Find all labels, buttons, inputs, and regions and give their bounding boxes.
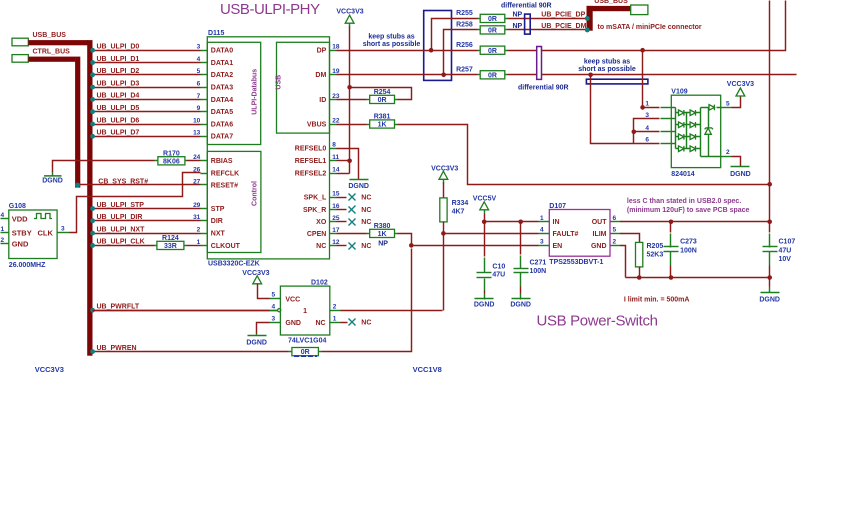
wire UB_ULPI_D0 — [90, 48, 200, 53]
svg-text:NP: NP — [378, 241, 388, 248]
svg-text:UB_PCIE_DM: UB_PCIE_DM — [541, 23, 586, 30]
no-connect X (D102 pin1) — [341, 319, 372, 327]
net label CB_SYS_RST# — [98, 178, 148, 185]
svg-text:24: 24 — [193, 154, 201, 161]
wire GND down — [621, 246, 626, 278]
net label UB_ULPI_D3 — [97, 80, 140, 87]
svg-text:R205: R205 — [647, 243, 664, 250]
resistor R334 — [440, 183, 469, 222]
junction DM to V109 — [588, 73, 659, 144]
power VCC3V3 (R334) — [431, 165, 458, 183]
svg-text:CLK: CLK — [37, 228, 53, 237]
wire D102 GND — [257, 323, 270, 334]
svg-text:0R: 0R — [488, 72, 497, 79]
svg-text:TPS2553DBVT-1: TPS2553DBVT-1 — [549, 259, 603, 266]
svg-text:UB_ULPI_DIR: UB_ULPI_DIR — [97, 214, 143, 221]
svg-text:CB_SYS_RST#: CB_SYS_RST# — [98, 178, 148, 185]
V109 pin 6 — [645, 137, 671, 144]
svg-text:ID: ID — [319, 97, 326, 104]
svg-text:4: 4 — [197, 56, 201, 63]
net label UB_ULPI_STP — [97, 202, 145, 209]
svg-text:R257: R257 — [456, 67, 473, 74]
no-connect X — [337, 206, 372, 214]
svg-text:2: 2 — [197, 227, 201, 234]
D115 pin 14 REFSEL2 — [295, 167, 340, 178]
wire UB_ULPI_D1 — [90, 60, 200, 65]
junction EN node — [409, 243, 414, 248]
svg-text:short as possible: short as possible — [363, 41, 421, 48]
svg-text:0R: 0R — [488, 28, 497, 35]
wire VCC5V to IN — [482, 214, 539, 225]
svg-text:DATA2: DATA2 — [211, 72, 233, 79]
svg-text:UB_PWREN: UB_PWREN — [97, 345, 137, 352]
resistor R205 — [636, 242, 664, 267]
svg-text:26.000MHZ: 26.000MHZ — [9, 262, 46, 269]
wire R381 to VBUS rail — [398, 125, 770, 185]
svg-text:CTRL_BUS: CTRL_BUS — [33, 49, 71, 56]
svg-text:RBIAS: RBIAS — [211, 158, 233, 165]
svg-text:STBY: STBY — [12, 228, 32, 237]
svg-text:100N: 100N — [530, 268, 547, 275]
svg-text:9: 9 — [197, 105, 201, 112]
wire bottom rail — [626, 275, 773, 280]
svg-text:DGND: DGND — [759, 297, 780, 304]
svg-text:1: 1 — [303, 308, 307, 315]
D115 pin 23 ID — [319, 93, 340, 104]
diode array V109 824014 box — [671, 89, 720, 178]
svg-text:VCC3V3: VCC3V3 — [336, 8, 363, 15]
svg-text:UB_ULPI_D5: UB_ULPI_D5 — [97, 105, 140, 112]
wire R334 to FAULT node — [441, 222, 446, 236]
junction DP to V109 — [640, 48, 645, 110]
svg-text:7: 7 — [197, 93, 201, 100]
net label UB_ULPI_D5 — [97, 105, 140, 112]
D115 pin 16 SPK_R — [303, 203, 340, 214]
D115 pin 12 NC — [316, 239, 340, 250]
D115 pin 25 XO — [316, 215, 340, 226]
svg-text:74LVC1G04: 74LVC1G04 — [288, 338, 326, 345]
svg-text:UB_ULPI_D1: UB_ULPI_D1 — [97, 56, 140, 63]
svg-text:EN: EN — [553, 243, 563, 250]
wire VCC5V down to C10 — [484, 222, 486, 257]
svg-text:3: 3 — [197, 44, 201, 51]
wire R205 to rail — [639, 267, 641, 278]
wire UB_ULPI_D2 — [90, 72, 200, 77]
IC D102 74LVC1G04 — [270, 279, 341, 344]
junction on VCC3V3 at REFSEL1 — [347, 159, 352, 164]
svg-text:3: 3 — [272, 315, 276, 322]
wire VBUS net vertical (right) — [767, 1, 772, 222]
resistor R380 (NP) — [367, 223, 398, 248]
svg-text:NP: NP — [513, 11, 523, 18]
wire UB_ULPI_D6 — [90, 122, 200, 127]
wire VCC3V3 vertical — [349, 27, 351, 174]
net label UB_ULPI_D4 — [97, 93, 140, 100]
svg-text:SPK_L: SPK_L — [304, 195, 327, 202]
svg-text:USB: USB — [276, 75, 283, 90]
svg-text:47U: 47U — [779, 248, 792, 255]
svg-text:R124: R124 — [162, 235, 179, 242]
svg-text:differential 90R: differential 90R — [518, 85, 569, 92]
svg-text:DATA1: DATA1 — [211, 60, 233, 67]
svg-text:2: 2 — [613, 239, 617, 246]
wire R258 out — [508, 28, 590, 33]
label differential 90R (bottom) — [518, 85, 569, 92]
svg-text:26: 26 — [193, 167, 201, 174]
svg-text:4: 4 — [645, 125, 649, 132]
capacitor C271 — [514, 256, 547, 287]
svg-text:DGND: DGND — [42, 178, 63, 185]
svg-text:D107: D107 — [549, 203, 566, 210]
wire DM line — [337, 74, 797, 76]
svg-text:27: 27 — [193, 178, 201, 185]
svg-text:GND: GND — [591, 243, 607, 250]
wire ID to R254 — [337, 99, 367, 101]
ground DGND (C271) — [510, 287, 531, 309]
wire UB_ULPI_DIR — [90, 218, 200, 223]
D115 pin 26 REFCLK — [193, 167, 239, 178]
D115 pin 4 DATA1 — [197, 56, 234, 67]
D115 ULPI-Databus sub-box — [207, 42, 260, 144]
diff-pair marker (blue, DP/DM) — [525, 14, 531, 34]
svg-text:C10: C10 — [492, 263, 505, 270]
wire V109 pins 3-4 branch — [632, 119, 660, 144]
svg-text:DGND: DGND — [474, 302, 495, 309]
net label UB_ULPI_D6 — [97, 117, 140, 124]
svg-text:USB_BUS: USB_BUS — [594, 0, 628, 5]
ground DGND (V109) — [730, 157, 751, 178]
net label UB_ULPI_NXT — [97, 226, 146, 233]
ground DGND (left of buses) — [42, 173, 63, 185]
resistor R254 — [367, 89, 398, 104]
resistor R124 — [155, 235, 187, 250]
resistor R255 — [456, 10, 507, 23]
label differential 90R (top) — [501, 3, 552, 10]
D115 pin 19 DM — [315, 68, 340, 79]
junction on VCC3V3 at R254 loop — [347, 85, 352, 90]
svg-text:REFCLK: REFCLK — [211, 171, 239, 178]
wire CB_SYS_RST# — [75, 183, 200, 188]
D115 pin 1 CLKOUT — [197, 239, 241, 250]
wire CLK to REFCLK — [70, 173, 201, 233]
svg-text:G108: G108 — [9, 203, 26, 210]
label NP R255 — [513, 11, 523, 18]
net label UB_ULPI_D1 — [97, 56, 140, 63]
net label UB_ULPI_D2 — [97, 68, 140, 75]
net label USB_BUS (top right, clipped) — [594, 0, 628, 5]
svg-text:DATA6: DATA6 — [211, 121, 233, 128]
svg-text:10V: 10V — [779, 256, 792, 263]
D115 pin 2 NXT — [197, 227, 226, 238]
frame blue box around series resistors — [424, 11, 452, 81]
svg-text:D115: D115 — [208, 30, 224, 37]
svg-text:1K: 1K — [378, 122, 387, 129]
D115 pin 9 DATA5 — [197, 105, 234, 116]
svg-text:1: 1 — [645, 100, 649, 107]
junction DP/R255 — [429, 19, 478, 53]
svg-text:0R: 0R — [301, 349, 310, 356]
D115 pin 8 REFSEL0 — [295, 142, 337, 153]
V109 pin 2 — [721, 149, 732, 156]
svg-text:4: 4 — [1, 212, 5, 219]
V109 internal diodes — [672, 105, 722, 157]
D115 pin 11 REFSEL1 — [295, 154, 340, 165]
svg-text:5: 5 — [197, 68, 201, 75]
svg-text:3: 3 — [540, 239, 544, 246]
V109 pin 1 — [645, 100, 671, 107]
svg-text:UB_ULPI_D7: UB_ULPI_D7 — [97, 130, 140, 137]
svg-text:ILIM: ILIM — [593, 231, 607, 238]
svg-text:DATA7: DATA7 — [211, 134, 233, 141]
svg-text:UB_ULPI_NXT: UB_ULPI_NXT — [97, 226, 146, 233]
svg-text:differential 90R: differential 90R — [501, 3, 552, 10]
svg-text:REFSEL0: REFSEL0 — [295, 146, 327, 153]
wire ILIM to R205 — [621, 234, 640, 243]
net label VCC1V8 (bottom) — [413, 365, 442, 374]
svg-text:13: 13 — [193, 130, 201, 137]
svg-text:keep stubs as: keep stubs as — [368, 34, 414, 41]
resistor R382 (0R) — [289, 348, 322, 357]
svg-text:DATA3: DATA3 — [211, 85, 233, 92]
svg-text:10: 10 — [193, 117, 201, 124]
svg-text:to mSATA / miniPCIe connector: to mSATA / miniPCIe connector — [598, 24, 702, 31]
capacitor C10 — [477, 258, 506, 291]
svg-text:R334: R334 — [452, 200, 469, 207]
svg-text:SPK_R: SPK_R — [303, 207, 326, 214]
power VCC3V3 (top) — [336, 8, 363, 27]
svg-text:XO: XO — [316, 219, 327, 226]
D115 pin 5 DATA2 — [197, 68, 234, 79]
svg-text:0R: 0R — [378, 97, 387, 104]
wire UB_ULPI_CLK — [90, 243, 200, 248]
svg-text:VCC3V3: VCC3V3 — [35, 365, 64, 374]
wire REFSEL2 — [337, 173, 350, 175]
wire FAULT# line — [444, 233, 539, 235]
svg-text:NC: NC — [361, 195, 371, 202]
svg-text:DGND: DGND — [730, 171, 751, 178]
svg-text:VCC3V3: VCC3V3 — [727, 81, 754, 88]
wire R255 out — [508, 16, 590, 21]
svg-text:CPEN: CPEN — [307, 231, 326, 238]
svg-text:4K7: 4K7 — [452, 208, 465, 215]
wire UB_ULPI_NXT — [90, 231, 200, 236]
svg-text:V109: V109 — [671, 89, 687, 96]
D115 pin 10 DATA6 — [193, 117, 233, 128]
svg-text:USB Power-Switch: USB Power-Switch — [537, 313, 658, 330]
D115 pin 17 CPEN — [307, 227, 340, 238]
svg-text:4: 4 — [272, 303, 276, 310]
svg-text:STP: STP — [211, 206, 225, 213]
no-connect X — [337, 243, 372, 251]
svg-text:5: 5 — [613, 227, 617, 234]
label NP R258 — [513, 23, 523, 30]
wire IN node down to C271 — [520, 222, 522, 255]
net label UB_ULPI_DIR — [97, 214, 143, 221]
svg-text:47U: 47U — [492, 272, 505, 279]
ground DGND (REFSEL0) — [348, 180, 369, 190]
svg-text:REFSEL2: REFSEL2 — [295, 171, 327, 178]
svg-text:VCC: VCC — [285, 296, 300, 303]
svg-text:DGND: DGND — [348, 183, 369, 190]
note I limit min — [624, 297, 690, 304]
svg-text:6: 6 — [613, 215, 617, 222]
resistor R170 — [155, 150, 187, 165]
net label UB_PCIE_DP — [541, 12, 585, 19]
label R382 clipped — [294, 355, 317, 357]
resistor R381 — [367, 114, 398, 129]
net label VCC3V3 (bottom left) — [35, 365, 64, 374]
svg-text:4: 4 — [540, 227, 544, 234]
svg-text:NC: NC — [361, 219, 371, 226]
wire R254 loop to VCC3V3 — [350, 88, 412, 100]
svg-text:VCC3V3: VCC3V3 — [431, 165, 458, 172]
ground DGND (C107) — [759, 278, 780, 304]
wire UB_PWRFLT — [90, 308, 277, 313]
svg-text:1: 1 — [197, 239, 201, 246]
svg-text:5: 5 — [272, 292, 276, 299]
net label USB_BUS — [33, 32, 67, 39]
ground DGND (D102) — [246, 334, 267, 347]
label to mSATA / miniPCIe connector — [598, 24, 702, 31]
bus USB_BUS — [28, 40, 92, 356]
wire RBIAS net — [53, 161, 201, 173]
wire REFSEL0 to DGND — [337, 149, 359, 180]
D115 pin 15 SPK_L — [304, 191, 340, 202]
svg-text:UB_ULPI_CLK: UB_ULPI_CLK — [97, 239, 145, 246]
bus USB_BUS (top right) — [585, 6, 631, 32]
svg-text:2: 2 — [333, 303, 337, 310]
no-connect X — [337, 219, 372, 227]
svg-text:DIR: DIR — [211, 218, 223, 225]
no-connect X — [337, 194, 372, 202]
resistor R257 — [456, 67, 507, 80]
svg-text:DATA0: DATA0 — [211, 48, 233, 55]
bus CTRL_BUS — [28, 57, 80, 188]
wire UB_ULPI_D3 — [90, 85, 200, 90]
svg-text:2: 2 — [1, 237, 5, 244]
svg-text:OUT: OUT — [592, 219, 608, 226]
V109 pin 4 — [645, 125, 671, 132]
impedance marker (long blue) — [586, 79, 648, 84]
svg-text:100N: 100N — [680, 248, 697, 255]
svg-text:14: 14 — [332, 167, 340, 174]
svg-text:UB_ULPI_D6: UB_ULPI_D6 — [97, 117, 140, 124]
note less C than stated — [627, 198, 750, 214]
net label UB_PWREN — [97, 345, 137, 352]
capacitor C107 — [763, 222, 796, 278]
svg-text:D102: D102 — [311, 279, 328, 286]
svg-text:6: 6 — [645, 137, 649, 144]
svg-text:R258: R258 — [456, 22, 473, 29]
svg-text:DGND: DGND — [510, 302, 531, 309]
svg-text:GND: GND — [12, 240, 29, 249]
svg-text:less C than stated in USB2.0 s: less C than stated in USB2.0 spec. — [627, 198, 741, 205]
svg-text:UB_ULPI_D3: UB_ULPI_D3 — [97, 80, 140, 87]
ground DGND (C10) — [474, 291, 495, 309]
svg-text:5: 5 — [726, 100, 730, 107]
svg-text:15: 15 — [332, 191, 340, 198]
label keep stubs (right) — [578, 59, 636, 74]
svg-text:R255: R255 — [456, 10, 473, 17]
svg-text:NC: NC — [361, 243, 371, 250]
svg-text:52K3: 52K3 — [647, 251, 664, 258]
diff-pair marker (purple, R256/R257) — [537, 47, 542, 80]
svg-text:RESET#: RESET# — [211, 182, 238, 189]
svg-text:USB-ULPI-PHY: USB-ULPI-PHY — [220, 1, 320, 18]
svg-text:UB_ULPI_D4: UB_ULPI_D4 — [97, 93, 140, 100]
IC U/D115 USB3320C-EZK outer box — [207, 30, 329, 267]
D115 pin 22 VBUS — [307, 117, 340, 128]
svg-text:VCC3V3: VCC3V3 — [242, 270, 269, 277]
svg-text:Control: Control — [252, 181, 259, 206]
wire FAULT node to D102 out — [443, 234, 445, 311]
bus connector (mSATA) — [631, 5, 648, 15]
svg-text:NC: NC — [361, 207, 371, 214]
oscillator G108 — [1, 203, 70, 269]
svg-text:VCC1V8: VCC1V8 — [413, 365, 442, 374]
svg-text:23: 23 — [332, 93, 340, 100]
D115 pin 18 DP — [317, 44, 340, 55]
D115 USB sub-box — [276, 42, 330, 133]
svg-text:VBUS: VBUS — [307, 121, 327, 128]
label keep stubs (left) — [363, 34, 421, 48]
junction DM/R258 — [441, 30, 477, 78]
svg-text:1: 1 — [1, 226, 5, 233]
wire D102 in (UB_PWRFLT) — [93, 310, 270, 312]
svg-text:NC: NC — [315, 320, 325, 327]
svg-text:29: 29 — [193, 202, 201, 209]
wire VCC3V3 to D102 VCC — [258, 284, 270, 299]
svg-text:C107: C107 — [779, 239, 796, 246]
svg-text:3: 3 — [61, 226, 65, 233]
svg-text:0R: 0R — [488, 48, 497, 55]
title USB-ULPI-PHY — [220, 1, 320, 18]
svg-text:FAULT#: FAULT# — [553, 231, 579, 238]
svg-text:keep stubs as: keep stubs as — [584, 59, 630, 66]
svg-text:R380: R380 — [374, 223, 391, 230]
svg-text:1K: 1K — [378, 231, 387, 238]
wire UB_PWREN — [90, 249, 411, 355]
svg-text:R170: R170 — [163, 150, 180, 157]
svg-text:C273: C273 — [680, 239, 697, 246]
wire UB_ULPI_D5 — [90, 109, 200, 114]
net label UB_PWRFLT — [97, 304, 140, 311]
capacitor C273 — [664, 222, 697, 278]
D115 pin 6 DATA3 — [197, 81, 234, 92]
svg-text:18: 18 — [332, 44, 340, 51]
svg-text:CLKOUT: CLKOUT — [211, 243, 241, 250]
D115 pin 3 DATA0 — [197, 44, 234, 55]
svg-text:VDD: VDD — [12, 215, 28, 224]
D115 Control sub-box — [207, 151, 261, 252]
svg-text:DATA5: DATA5 — [211, 109, 233, 116]
svg-text:ULPI-Databus: ULPI-Databus — [252, 69, 259, 115]
wire D102 pin2 to FAULT node — [341, 310, 443, 312]
svg-text:8: 8 — [332, 142, 336, 149]
D115 pin 29 STP — [193, 202, 225, 213]
svg-text:UB_ULPI_D0: UB_ULPI_D0 — [97, 44, 140, 51]
D115 pin 13 DATA7 — [193, 130, 233, 141]
power VCC3V3 (V109) — [727, 81, 754, 108]
D115 pin 27 RESET# — [193, 178, 238, 189]
svg-text:I limit min. = 500mA: I limit min. = 500mA — [624, 297, 690, 304]
svg-text:31: 31 — [193, 214, 201, 221]
svg-text:NC: NC — [316, 243, 326, 250]
net label CTRL_BUS — [33, 49, 71, 56]
net label UB_ULPI_D0 — [97, 44, 140, 51]
wire UB_ULPI_D4 — [90, 97, 200, 102]
svg-text:UB_PCIE_DP: UB_PCIE_DP — [541, 12, 585, 19]
